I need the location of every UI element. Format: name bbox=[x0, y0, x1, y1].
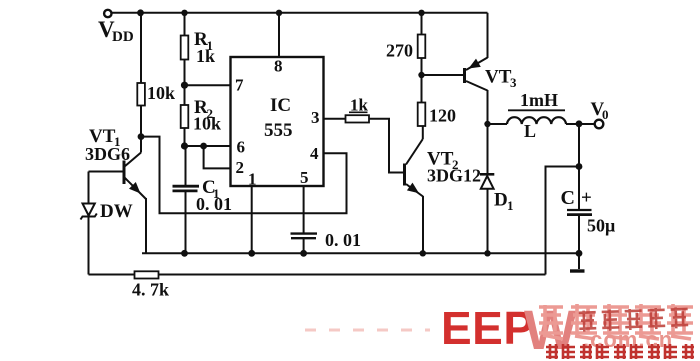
svg-text:1: 1 bbox=[248, 170, 257, 189]
svg-text:10k: 10k bbox=[193, 114, 221, 134]
svg-text:4: 4 bbox=[310, 144, 319, 163]
svg-text:1k: 1k bbox=[196, 46, 215, 66]
svg-text:3DG12: 3DG12 bbox=[427, 166, 481, 186]
svg-text:0. 01: 0. 01 bbox=[325, 230, 361, 250]
svg-text:2: 2 bbox=[236, 158, 245, 177]
svg-text:4. 7k: 4. 7k bbox=[132, 280, 169, 300]
svg-text:0. 01: 0. 01 bbox=[196, 194, 232, 214]
svg-text:L: L bbox=[524, 121, 536, 141]
svg-text:EEP: EEP bbox=[441, 302, 535, 354]
svg-text:5: 5 bbox=[300, 168, 309, 187]
svg-text:3DG6: 3DG6 bbox=[85, 144, 130, 164]
svg-text:D: D bbox=[494, 190, 508, 211]
svg-text:VT: VT bbox=[485, 67, 512, 88]
svg-text:120: 120 bbox=[429, 106, 456, 126]
svg-text:270: 270 bbox=[386, 41, 413, 61]
svg-text:50μ: 50μ bbox=[587, 216, 615, 236]
svg-text:0: 0 bbox=[602, 107, 609, 122]
svg-text:1mH: 1mH bbox=[520, 90, 558, 110]
svg-text:DD: DD bbox=[112, 29, 134, 45]
svg-text:555: 555 bbox=[264, 120, 293, 141]
svg-text:1: 1 bbox=[507, 198, 514, 213]
svg-text:6: 6 bbox=[237, 138, 246, 157]
svg-text:DW: DW bbox=[100, 201, 133, 222]
svg-text:3: 3 bbox=[311, 108, 320, 127]
svg-text:+: + bbox=[581, 188, 592, 209]
svg-text:3: 3 bbox=[510, 75, 517, 90]
svg-text:8: 8 bbox=[274, 57, 283, 76]
svg-text:IC: IC bbox=[270, 95, 291, 116]
svg-text:C: C bbox=[561, 187, 575, 209]
svg-text:7: 7 bbox=[235, 76, 244, 95]
svg-text:10k: 10k bbox=[147, 83, 175, 103]
